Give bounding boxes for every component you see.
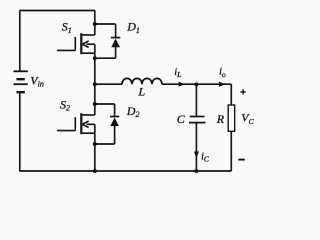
battery Vin [14,71,28,92]
svg-text:Vin: Vin [30,74,44,89]
svg-text:S1: S1 [62,20,72,35]
transistor S1 (MOSFET) [57,33,95,54]
arrow iL [179,82,185,87]
wire inductor branch left [95,83,122,85]
svg-text:io: io [219,67,226,79]
label plus [240,89,245,94]
node junction D2 top [93,102,97,106]
wire right vertical upper [230,84,232,105]
capacitor C [190,116,205,118]
wire bottom horizontal [20,170,232,172]
wire capacitor branch upper [195,84,197,116]
arrow ic [194,152,199,159]
svg-text:S2: S2 [60,98,70,113]
diode D2 [110,116,119,118]
svg-text:D1: D1 [126,20,140,35]
wire capacitor branch lower [195,123,197,171]
svg-text:R: R [216,112,225,126]
wire top horizontal [20,10,96,12]
label minus [238,159,245,161]
svg-text:iL: iL [174,67,181,79]
wire main vertical segment middle (source S1 to drain S2) [94,44,96,115]
diode D1 [111,37,120,39]
node junction capacitor bottom [194,169,198,173]
wire main vertical segment top (drain side S1) [94,11,96,36]
wire left vertical upper [19,11,21,71]
node junction D1 top [93,22,97,26]
node junction S1 source / D1 return [93,56,97,60]
wire left vertical lower [19,93,21,171]
inductor L [122,78,162,84]
transistor S2 (MOSFET) [57,113,95,134]
node junction S2 source / D2 return [93,142,97,146]
arrow io [219,82,225,87]
svg-text:D2: D2 [126,104,140,119]
node junction main vertical bottom [93,169,97,173]
svg-text:VC: VC [241,111,254,127]
diode D2 branch wires [95,104,115,144]
node junction inductor tap [93,82,97,86]
wire right vertical lower [230,131,232,171]
arrow on S1 body lead [82,41,88,47]
diode D1 branch wires [95,24,116,58]
svg-text:C: C [177,112,186,126]
arrow on S2 body lead [82,121,88,127]
wire inductor to output [162,83,231,85]
resistor R [228,105,235,131]
svg-text:iC: iC [201,152,210,164]
svg-text:L: L [138,85,146,99]
wire main vertical segment bottom (source S2 to bottom rail) [94,124,96,171]
node junction capacitor tap [194,82,198,86]
